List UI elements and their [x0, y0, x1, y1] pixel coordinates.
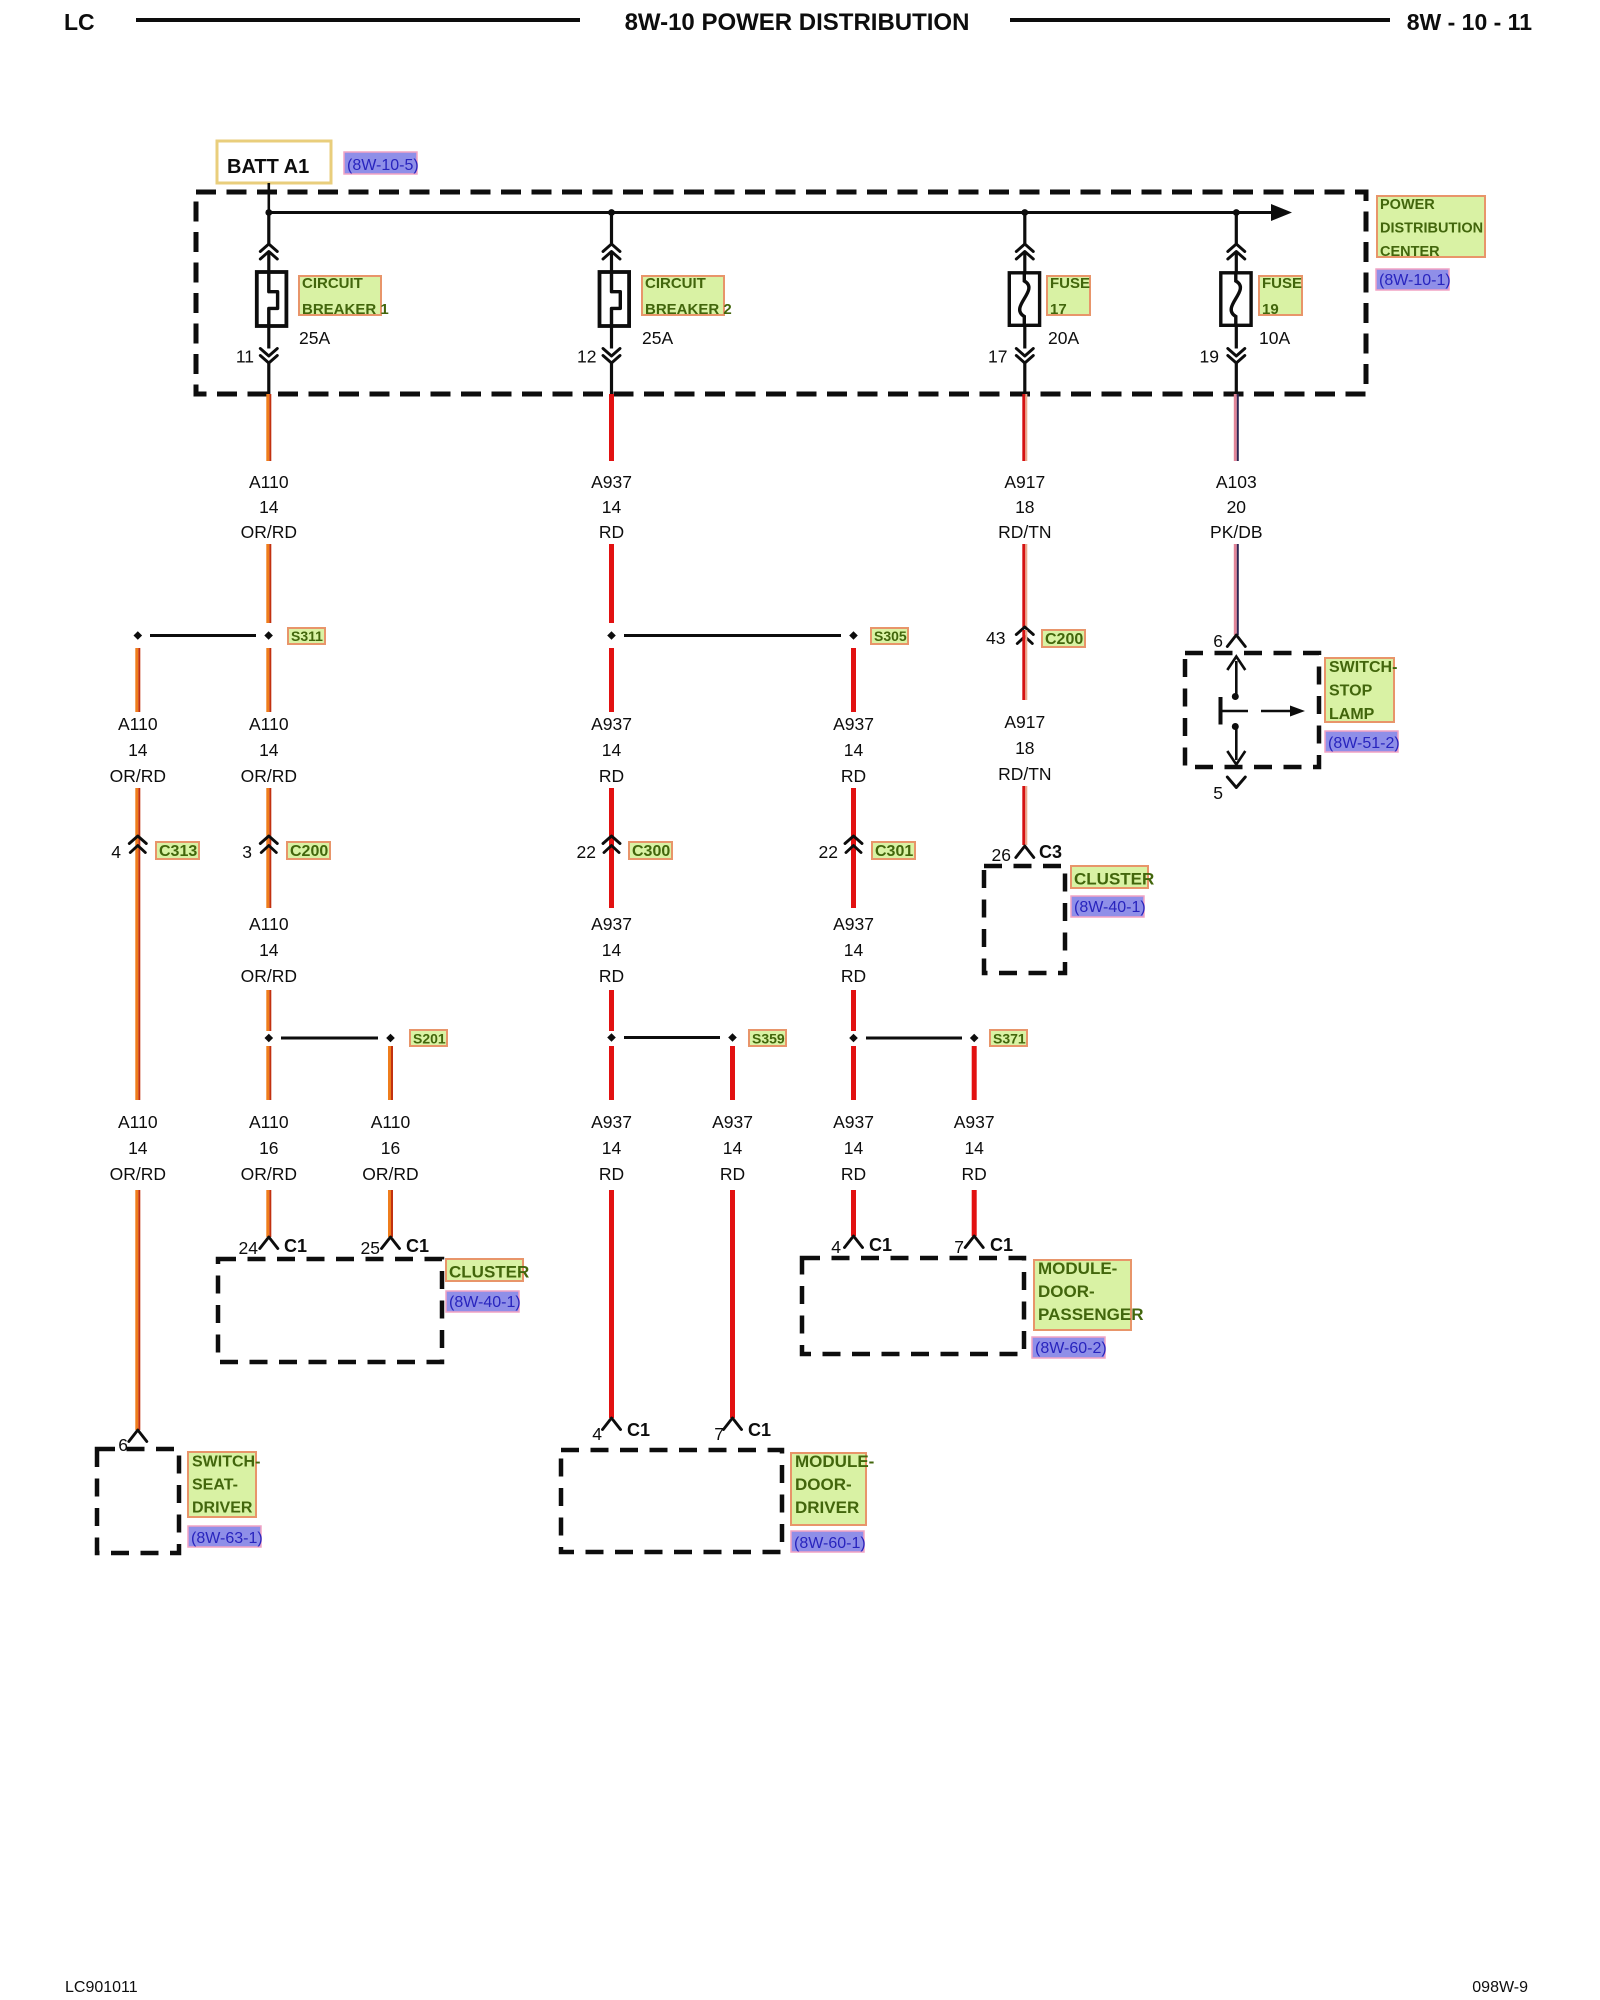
- svg-text:C200: C200: [1045, 631, 1083, 648]
- splice S201: [265, 1034, 395, 1043]
- svg-text:25A: 25A: [299, 328, 330, 348]
- svg-text:LC901011: LC901011: [65, 1979, 138, 1996]
- connector label C1 (pin 25): [406, 1236, 429, 1256]
- svg-text:RD: RD: [720, 1164, 745, 1184]
- value label 25A (CB2): [642, 328, 673, 348]
- svg-text:CENTER: CENTER: [1380, 244, 1440, 260]
- junction node at fuse 17: [1021, 209, 1028, 216]
- header rule left: [136, 18, 580, 22]
- reference label (8W-40-1) lower: [446, 1291, 521, 1312]
- connector C301 pin 22 chevrons: [845, 836, 862, 853]
- junction node at fuse 19: [1233, 209, 1240, 216]
- svg-text:(8W-60-1): (8W-60-1): [794, 1535, 866, 1552]
- component label POWER DISTRIBUTION CENTER: [1377, 196, 1485, 260]
- wire A110 toward splice S311: [266, 544, 271, 623]
- svg-text:14: 14: [844, 940, 864, 960]
- wire A103 20 PK/DB from fuse 19: [1234, 394, 1239, 461]
- svg-text:S371: S371: [993, 1031, 1026, 1047]
- value label 25A (CB1): [299, 328, 330, 348]
- svg-text:A937: A937: [591, 714, 632, 734]
- svg-text:18: 18: [1015, 497, 1034, 517]
- page header LC: [64, 9, 95, 35]
- component box SWITCH-STOP-LAMP: [1185, 653, 1319, 767]
- svg-text:CLUSTER: CLUSTER: [1074, 870, 1154, 889]
- pin number 4 (C313): [111, 842, 121, 862]
- wire label A110 14 OR/RD (to seat switch): [110, 1112, 166, 1184]
- svg-text:DRIVER: DRIVER: [795, 1498, 859, 1517]
- svg-text:14: 14: [844, 740, 864, 760]
- svg-text:PK/DB: PK/DB: [1210, 522, 1263, 542]
- wire label A110 14 OR/RD (below S311): [241, 714, 297, 786]
- svg-text:(8W-51-2): (8W-51-2): [1328, 735, 1400, 752]
- wire label A937 14 RD (driver pin 7 leg): [712, 1112, 753, 1184]
- svg-text:DISTRIBUTION: DISTRIBUTION: [1380, 221, 1483, 237]
- component label SWITCH-STOP-LAMP: [1325, 658, 1397, 723]
- wire A937 to door module passenger pin 4: [851, 1190, 856, 1236]
- svg-text:11: 11: [236, 347, 254, 367]
- svg-text:CIRCUIT: CIRCUIT: [302, 275, 363, 292]
- stop lamp switch output arrow (down): [1227, 729, 1245, 765]
- svg-text:DOOR-: DOOR-: [795, 1475, 852, 1494]
- connector chevron pin 6 at stop lamp switch: [1227, 635, 1245, 647]
- svg-text:S359: S359: [752, 1031, 785, 1047]
- connector label C301: [872, 842, 915, 860]
- wire A917 toward connector C200: [1022, 544, 1027, 627]
- svg-text:26: 26: [992, 845, 1011, 865]
- svg-text:PASSENGER: PASSENGER: [1038, 1305, 1144, 1324]
- svg-text:10A: 10A: [1259, 328, 1290, 348]
- svg-text:OR/RD: OR/RD: [110, 1164, 166, 1184]
- svg-text:A937: A937: [591, 472, 632, 492]
- svg-text:C1: C1: [627, 1420, 650, 1440]
- svg-text:(8W-10-1): (8W-10-1): [1379, 272, 1451, 289]
- svg-text:A110: A110: [249, 914, 289, 934]
- svg-text:LC: LC: [64, 9, 95, 35]
- svg-text:6: 6: [1213, 631, 1223, 651]
- reference label (8W-40-1) upper: [1071, 896, 1146, 917]
- pin number 6 (stop lamp switch): [1213, 631, 1223, 651]
- connector label C1 (passenger pin 7): [990, 1235, 1013, 1255]
- component label MODULE-DOOR-PASSENGER: [1034, 1259, 1144, 1330]
- svg-text:C200: C200: [290, 843, 328, 860]
- svg-text:14: 14: [259, 497, 279, 517]
- svg-text:CLUSTER: CLUSTER: [449, 1263, 529, 1282]
- pin number 4 (passenger module): [831, 1237, 841, 1257]
- pin number 43: [986, 628, 1005, 648]
- fuse F19 with in/out connector chevrons pin 19: [1221, 213, 1251, 395]
- svg-text:16: 16: [381, 1138, 400, 1158]
- svg-text:A937: A937: [591, 914, 632, 934]
- svg-text:OR/RD: OR/RD: [241, 966, 297, 986]
- connector C1 pin 4 chevron (driver): [603, 1418, 621, 1430]
- wire label A917 18 RD/TN: [998, 472, 1051, 542]
- circuit breaker CB1 with in/out connector chevrons pin 11: [257, 213, 287, 395]
- svg-text:14: 14: [602, 1138, 622, 1158]
- wire label A937 14 RD (below C300): [591, 914, 632, 986]
- component box MODULE-DOOR-PASSENGER: [802, 1258, 1024, 1354]
- svg-text:25A: 25A: [642, 328, 673, 348]
- svg-text:A937: A937: [591, 1112, 632, 1132]
- svg-text:RD: RD: [599, 1164, 624, 1184]
- wire label A917 18 RD/TN (below C200): [998, 712, 1051, 784]
- connector C300 pin 22 chevrons: [603, 836, 620, 853]
- value label 10A (fuse 19): [1259, 328, 1290, 348]
- wire A937 below S359 (pin 4 leg): [609, 1046, 614, 1100]
- svg-text:DOOR-: DOOR-: [1038, 1282, 1095, 1301]
- svg-text:(8W-60-2): (8W-60-2): [1035, 1340, 1107, 1357]
- pin number 7 (passenger module): [954, 1237, 964, 1257]
- svg-text:FUSE: FUSE: [1050, 275, 1090, 292]
- svg-text:14: 14: [128, 1138, 148, 1158]
- wire A917 to cluster pin 26: [1022, 786, 1027, 845]
- circuit breaker CB2 with in/out connector chevrons pin 12: [600, 213, 630, 395]
- pin number 11: [236, 347, 254, 367]
- pin number 7 (driver module): [714, 1424, 724, 1444]
- wire label A103 20 PK/DB: [1210, 472, 1263, 542]
- wire label A110 16 OR/RD (pin 25 leg): [362, 1112, 418, 1184]
- header rule right: [1010, 18, 1390, 22]
- wire A937 toward splice S371: [851, 990, 856, 1031]
- reference label (8W-63-1): [188, 1526, 263, 1547]
- svg-text:C1: C1: [990, 1235, 1013, 1255]
- svg-text:14: 14: [259, 740, 279, 760]
- reference label (8W-10-1): [1376, 269, 1451, 290]
- svg-text:A937: A937: [712, 1112, 753, 1132]
- pin number 17: [988, 347, 1007, 367]
- svg-text:C1: C1: [869, 1235, 892, 1255]
- svg-text:C301: C301: [875, 843, 913, 860]
- svg-text:20: 20: [1227, 497, 1247, 517]
- svg-text:BATT A1: BATT A1: [227, 156, 309, 178]
- wire A110 right branch below S201: [388, 1046, 393, 1100]
- wire A937 right branch below S359: [730, 1046, 735, 1100]
- svg-text:C1: C1: [406, 1236, 429, 1256]
- pin number 22 (C301): [819, 842, 838, 862]
- svg-text:A110: A110: [249, 472, 289, 492]
- connector label C200 (pin 43): [1042, 630, 1085, 648]
- connector label C200: [287, 842, 330, 860]
- component label CLUSTER (upper): [1071, 866, 1154, 889]
- svg-text:A917: A917: [1004, 712, 1045, 732]
- svg-text:RD/TN: RD/TN: [998, 764, 1051, 784]
- svg-text:RD: RD: [962, 1164, 987, 1184]
- connector chevron pin 5 below stop lamp switch: [1227, 777, 1245, 788]
- svg-text:LAMP: LAMP: [1329, 706, 1375, 723]
- wire A937 to door module passenger pin 7: [972, 1190, 977, 1236]
- svg-text:SWITCH-: SWITCH-: [1329, 659, 1397, 676]
- component box CLUSTER (8W-40-1) upper: [984, 866, 1065, 973]
- stop lamp switch contact bar: [1223, 710, 1249, 713]
- splice label S359: [749, 1030, 786, 1047]
- svg-text:17: 17: [988, 347, 1007, 367]
- pin number 25: [361, 1238, 380, 1258]
- junction node at circuit breaker 1: [265, 209, 272, 216]
- svg-text:RD: RD: [599, 966, 624, 986]
- junction node at circuit breaker 2: [608, 209, 615, 216]
- svg-text:4: 4: [592, 1424, 602, 1444]
- power distribution center dashed box: [196, 192, 1366, 394]
- splice S311: [134, 631, 273, 640]
- value label 20A (fuse 17): [1048, 328, 1079, 348]
- svg-text:17: 17: [1050, 301, 1067, 318]
- svg-text:RD: RD: [599, 522, 624, 542]
- battery feed box BATT A1: [217, 141, 331, 183]
- svg-text:C1: C1: [748, 1420, 771, 1440]
- wire A937 to door module driver pin 7: [730, 1190, 735, 1418]
- svg-text:FUSE: FUSE: [1262, 275, 1302, 292]
- component label FUSE 17: [1047, 275, 1090, 318]
- pin number 5: [1213, 783, 1223, 803]
- pin number 12: [577, 347, 596, 367]
- wire A110 14 OR/RD from CB1: [266, 394, 271, 461]
- svg-text:OR/RD: OR/RD: [110, 766, 166, 786]
- svg-text:14: 14: [602, 740, 622, 760]
- wire A937 right branch below S371: [972, 1046, 977, 1100]
- svg-text:SWITCH-: SWITCH-: [192, 1454, 260, 1471]
- component box SWITCH-SEAT-DRIVER: [97, 1449, 179, 1553]
- wire A110 to cluster pin 24: [266, 1190, 271, 1237]
- pin number 3 (C200): [242, 842, 252, 862]
- wire A917 18 RD/TN from fuse 17: [1022, 394, 1027, 461]
- wire A110 below S201 (pin 24 leg): [266, 1046, 271, 1100]
- svg-text:S311: S311: [291, 628, 323, 644]
- svg-text:14: 14: [844, 1138, 864, 1158]
- svg-text:(8W-40-1): (8W-40-1): [1074, 899, 1146, 916]
- wire A110 to switch-seat-driver: [135, 1190, 140, 1430]
- svg-text:MODULE-: MODULE-: [795, 1452, 874, 1471]
- page header 8W - 10 - 11: [1407, 9, 1532, 35]
- svg-text:24: 24: [239, 1238, 259, 1258]
- pin number 6 (seat switch): [118, 1435, 128, 1455]
- stop lamp switch pole: [1219, 697, 1223, 725]
- svg-text:22: 22: [577, 842, 596, 862]
- connector C1 pin 25 chevron: [382, 1237, 400, 1249]
- svg-text:12: 12: [577, 347, 596, 367]
- wire label A110 14 OR/RD (left branch): [110, 714, 166, 786]
- svg-text:CIRCUIT: CIRCUIT: [645, 275, 706, 292]
- wire label A110 16 OR/RD (pin 24 leg): [241, 1112, 297, 1184]
- pin number 22 (C300): [577, 842, 596, 862]
- svg-text:A937: A937: [833, 714, 874, 734]
- svg-text:(8W-10-5): (8W-10-5): [347, 157, 419, 174]
- splice label S201: [410, 1030, 447, 1047]
- connector C1 pin 7 chevron (passenger): [965, 1236, 983, 1248]
- pin number 24: [239, 1238, 259, 1258]
- svg-text:S305: S305: [874, 628, 907, 644]
- connector label C1 (driver pin 7): [748, 1420, 771, 1440]
- stop lamp switch feed arrow (up): [1227, 657, 1245, 695]
- svg-text:14: 14: [964, 1138, 984, 1158]
- svg-text:RD: RD: [841, 1164, 866, 1184]
- svg-text:MODULE-: MODULE-: [1038, 1259, 1117, 1278]
- connector C200 pin 3 chevrons: [260, 836, 277, 853]
- connector C1 pin 4 chevron (passenger): [845, 1236, 863, 1248]
- component box MODULE-DOOR-DRIVER: [561, 1450, 782, 1552]
- wire A937 through connector C300: [609, 788, 614, 908]
- wire A110 toward splice S201: [266, 990, 271, 1031]
- connector C3 pin 26 chevron: [1016, 846, 1034, 858]
- svg-text:OR/RD: OR/RD: [241, 1164, 297, 1184]
- wire A937 below S305 right branch: [851, 648, 856, 712]
- svg-text:BREAKER 1: BREAKER 1: [302, 301, 389, 318]
- wire A110 through connector C313: [135, 788, 140, 1100]
- reference label (8W-51-2): [1325, 731, 1400, 752]
- pin number 19: [1200, 347, 1219, 367]
- svg-text:25: 25: [361, 1238, 380, 1258]
- svg-text:14: 14: [602, 497, 622, 517]
- component label SWITCH-SEAT-DRIVER: [188, 1452, 260, 1517]
- splice S371: [849, 1034, 978, 1043]
- footer 098W-9: [1472, 1979, 1528, 1996]
- svg-text:4: 4: [111, 842, 121, 862]
- connector C1 pin 24 chevron: [260, 1237, 278, 1249]
- svg-text:3: 3: [242, 842, 252, 862]
- wire label A110 14 OR/RD: [241, 472, 297, 542]
- svg-text:A110: A110: [118, 714, 158, 734]
- reference label (8W-60-2): [1032, 1337, 1107, 1358]
- svg-text:RD: RD: [841, 766, 866, 786]
- svg-text:POWER: POWER: [1380, 197, 1435, 213]
- svg-text:SEAT-: SEAT-: [192, 1477, 238, 1494]
- svg-text:DRIVER: DRIVER: [192, 1500, 253, 1517]
- wire A110 through connector C200: [266, 788, 271, 908]
- svg-text:A937: A937: [954, 1112, 995, 1132]
- wire label A937 14 RD: [591, 472, 632, 542]
- wire label A937 14 RD (driver pin 4 leg): [591, 1112, 632, 1184]
- pin number 26: [992, 845, 1011, 865]
- wire A917 below C200: [1022, 630, 1027, 700]
- wire A103 to stop lamp switch: [1234, 544, 1239, 635]
- component box CLUSTER (8W-40-1) lower: [218, 1259, 442, 1362]
- wire A937 through connector C301: [851, 788, 856, 908]
- wire label A110 14 OR/RD (below C200): [241, 914, 297, 986]
- component label MODULE-DOOR-DRIVER: [791, 1452, 874, 1525]
- wire A937 toward splice S305: [609, 544, 614, 623]
- connector C200 pin 43 chevrons: [1016, 627, 1033, 644]
- svg-text:8W-10 POWER DISTRIBUTION: 8W-10 POWER DISTRIBUTION: [625, 9, 970, 36]
- wire A110 left branch below S311: [135, 648, 140, 712]
- connector C1 pin 7 chevron (driver): [724, 1418, 742, 1430]
- wire A110 below S311: [266, 648, 271, 712]
- node upper contact: [1232, 693, 1239, 700]
- footer LC901011: [65, 1979, 138, 1996]
- wire label A937 14 RD (below C301): [833, 914, 874, 986]
- connector label C300: [629, 842, 672, 860]
- component label CLUSTER (lower): [446, 1259, 529, 1282]
- svg-text:18: 18: [1015, 738, 1034, 758]
- svg-text:098W-9: 098W-9: [1472, 1979, 1528, 1996]
- connector label C1 (passenger pin 4): [869, 1235, 892, 1255]
- wire label A937 14 RD (right branch): [833, 714, 874, 786]
- svg-text:OR/RD: OR/RD: [362, 1164, 418, 1184]
- svg-text:20A: 20A: [1048, 328, 1079, 348]
- svg-text:RD/TN: RD/TN: [998, 522, 1051, 542]
- svg-text:A110: A110: [249, 1112, 289, 1132]
- svg-text:C313: C313: [159, 843, 197, 860]
- svg-text:C300: C300: [632, 843, 670, 860]
- splice S359: [607, 1033, 737, 1042]
- svg-text:7: 7: [954, 1237, 964, 1257]
- svg-text:16: 16: [259, 1138, 278, 1158]
- svg-text:(8W-63-1): (8W-63-1): [191, 1530, 263, 1547]
- component label FUSE 19: [1259, 275, 1302, 318]
- svg-text:6: 6: [118, 1435, 128, 1455]
- svg-text:OR/RD: OR/RD: [241, 522, 297, 542]
- svg-text:A917: A917: [1004, 472, 1045, 492]
- wire label A937 14 RD (below S305): [591, 714, 632, 786]
- bus arrowhead: [1271, 204, 1292, 221]
- svg-text:C1: C1: [284, 1236, 307, 1256]
- reference label (8W-10-5): [344, 152, 419, 174]
- connector label C313: [156, 842, 199, 860]
- svg-text:OR/RD: OR/RD: [241, 766, 297, 786]
- svg-text:A110: A110: [118, 1112, 158, 1132]
- wire A937 below S305: [609, 648, 614, 712]
- svg-text:BREAKER 2: BREAKER 2: [645, 301, 732, 318]
- node lower contact: [1232, 723, 1239, 730]
- svg-text:43: 43: [986, 628, 1005, 648]
- svg-text:14: 14: [723, 1138, 743, 1158]
- svg-text:STOP: STOP: [1329, 683, 1373, 700]
- wire A937 toward splice S359: [609, 990, 614, 1031]
- svg-text:S201: S201: [413, 1031, 446, 1047]
- wire A937 to door module driver pin 4: [609, 1190, 614, 1418]
- wire label A937 14 RD (passenger pin 4 leg): [833, 1112, 874, 1184]
- svg-text:A103: A103: [1216, 472, 1257, 492]
- svg-text:19: 19: [1262, 301, 1279, 318]
- svg-text:RD: RD: [841, 966, 866, 986]
- fuse F17 with in/out connector chevrons pin 17: [1009, 213, 1039, 395]
- splice label S311: [288, 628, 325, 644]
- connector C313 pin 4 chevrons: [129, 836, 146, 853]
- svg-text:A110: A110: [249, 714, 289, 734]
- connector label C1 (driver pin 4): [627, 1420, 650, 1440]
- page header title 8W-10 POWER DISTRIBUTION: [625, 9, 970, 36]
- wire A937 below S371 (pin 4 leg): [851, 1046, 856, 1100]
- svg-text:19: 19: [1200, 347, 1219, 367]
- wire label A937 14 RD (passenger pin 7 leg): [954, 1112, 995, 1184]
- component label CIRCUIT BREAKER 1: [299, 275, 389, 318]
- reference label (8W-60-1): [791, 1531, 866, 1552]
- svg-text:(8W-40-1): (8W-40-1): [449, 1294, 521, 1311]
- bus wire from BATT A1: [269, 211, 1274, 214]
- pin number 4 (driver module): [592, 1424, 602, 1444]
- svg-text:A937: A937: [833, 914, 874, 934]
- stop lamp switch actuation arrow: [1261, 706, 1305, 717]
- splice S305: [607, 631, 858, 640]
- connector chevron pin 6 at switch-seat-driver: [129, 1430, 147, 1442]
- svg-text:22: 22: [819, 842, 838, 862]
- svg-text:8W - 10 - 11: 8W - 10 - 11: [1407, 9, 1532, 35]
- svg-text:A110: A110: [371, 1112, 411, 1132]
- wire A110 to cluster pin 25: [388, 1190, 393, 1237]
- connector label C1 (pin 24): [284, 1236, 307, 1256]
- component label CIRCUIT BREAKER 2: [642, 275, 732, 318]
- svg-text:14: 14: [259, 940, 279, 960]
- svg-text:RD: RD: [599, 766, 624, 786]
- svg-text:A937: A937: [833, 1112, 874, 1132]
- splice label S371: [990, 1030, 1027, 1047]
- svg-text:14: 14: [602, 940, 622, 960]
- wire A937 14 RD from CB2: [609, 394, 614, 461]
- svg-text:4: 4: [831, 1237, 841, 1257]
- connector label C3: [1039, 842, 1062, 862]
- svg-text:5: 5: [1213, 783, 1223, 803]
- svg-text:7: 7: [714, 1424, 724, 1444]
- svg-text:14: 14: [128, 740, 148, 760]
- wire from BATT A1 to bus: [267, 183, 270, 214]
- splice label S305: [871, 628, 908, 644]
